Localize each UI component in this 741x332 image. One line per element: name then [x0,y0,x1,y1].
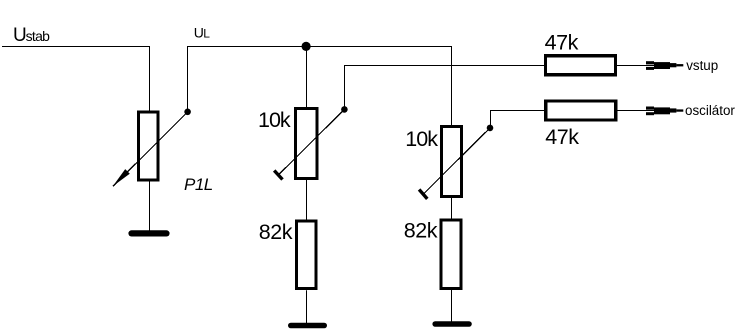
svg-text:82k: 82k [404,219,438,243]
svg-text:10k: 10k [258,108,291,132]
svg-text:vstup: vstup [686,58,718,73]
svg-text:P1L: P1L [184,175,213,194]
svg-text:oscilátor: oscilátor [685,103,735,118]
svg-text:47k: 47k [545,31,579,55]
svg-text:stab: stab [26,28,51,44]
svg-text:47k: 47k [545,125,579,149]
svg-text:82k: 82k [259,220,293,244]
svg-text:L: L [203,27,210,41]
svg-text:10k: 10k [405,127,438,151]
